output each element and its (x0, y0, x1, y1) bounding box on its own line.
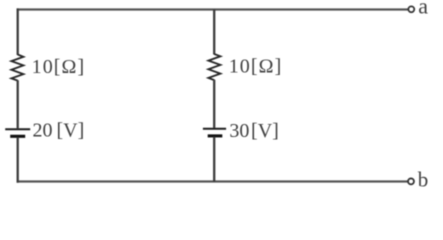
terminal a open circle (408, 6, 414, 12)
svg-text:30 [V]: 30 [V] (229, 120, 278, 142)
resistor R2 10 ohm (middle branch zigzag) (208, 54, 220, 80)
svg-text:20 [V]: 20 [V] (33, 119, 85, 141)
battery V1 20V short plate (left branch) (10, 135, 25, 138)
wire: bottom rail from left branch to terminal b (17, 180, 409, 182)
svg-text:a: a (418, 0, 428, 19)
svg-text:10[Ω]: 10[Ω] (229, 56, 283, 78)
resistor R1 10 ohm (left branch zigzag) (11, 55, 23, 81)
battery V1 20V long plate (left branch) (5, 128, 30, 130)
wire: left branch between resistor and battery (17, 80, 19, 128)
wire: middle branch upper segment (213, 10, 215, 55)
svg-text:b: b (418, 168, 429, 192)
wire: middle branch between resistor and battery (213, 80, 215, 128)
svg-text:10[Ω]: 10[Ω] (32, 56, 86, 78)
wire: left branch lower segment (17, 137, 19, 183)
battery V2 30V short plate (middle branch) (208, 134, 223, 137)
battery V2 30V long plate (middle branch) (203, 128, 226, 130)
wire: left branch upper segment (17, 8, 19, 55)
wire: middle branch lower segment (213, 137, 215, 182)
terminal b open circle (408, 178, 414, 184)
wire: top rail from left branch to terminal a (17, 8, 409, 10)
